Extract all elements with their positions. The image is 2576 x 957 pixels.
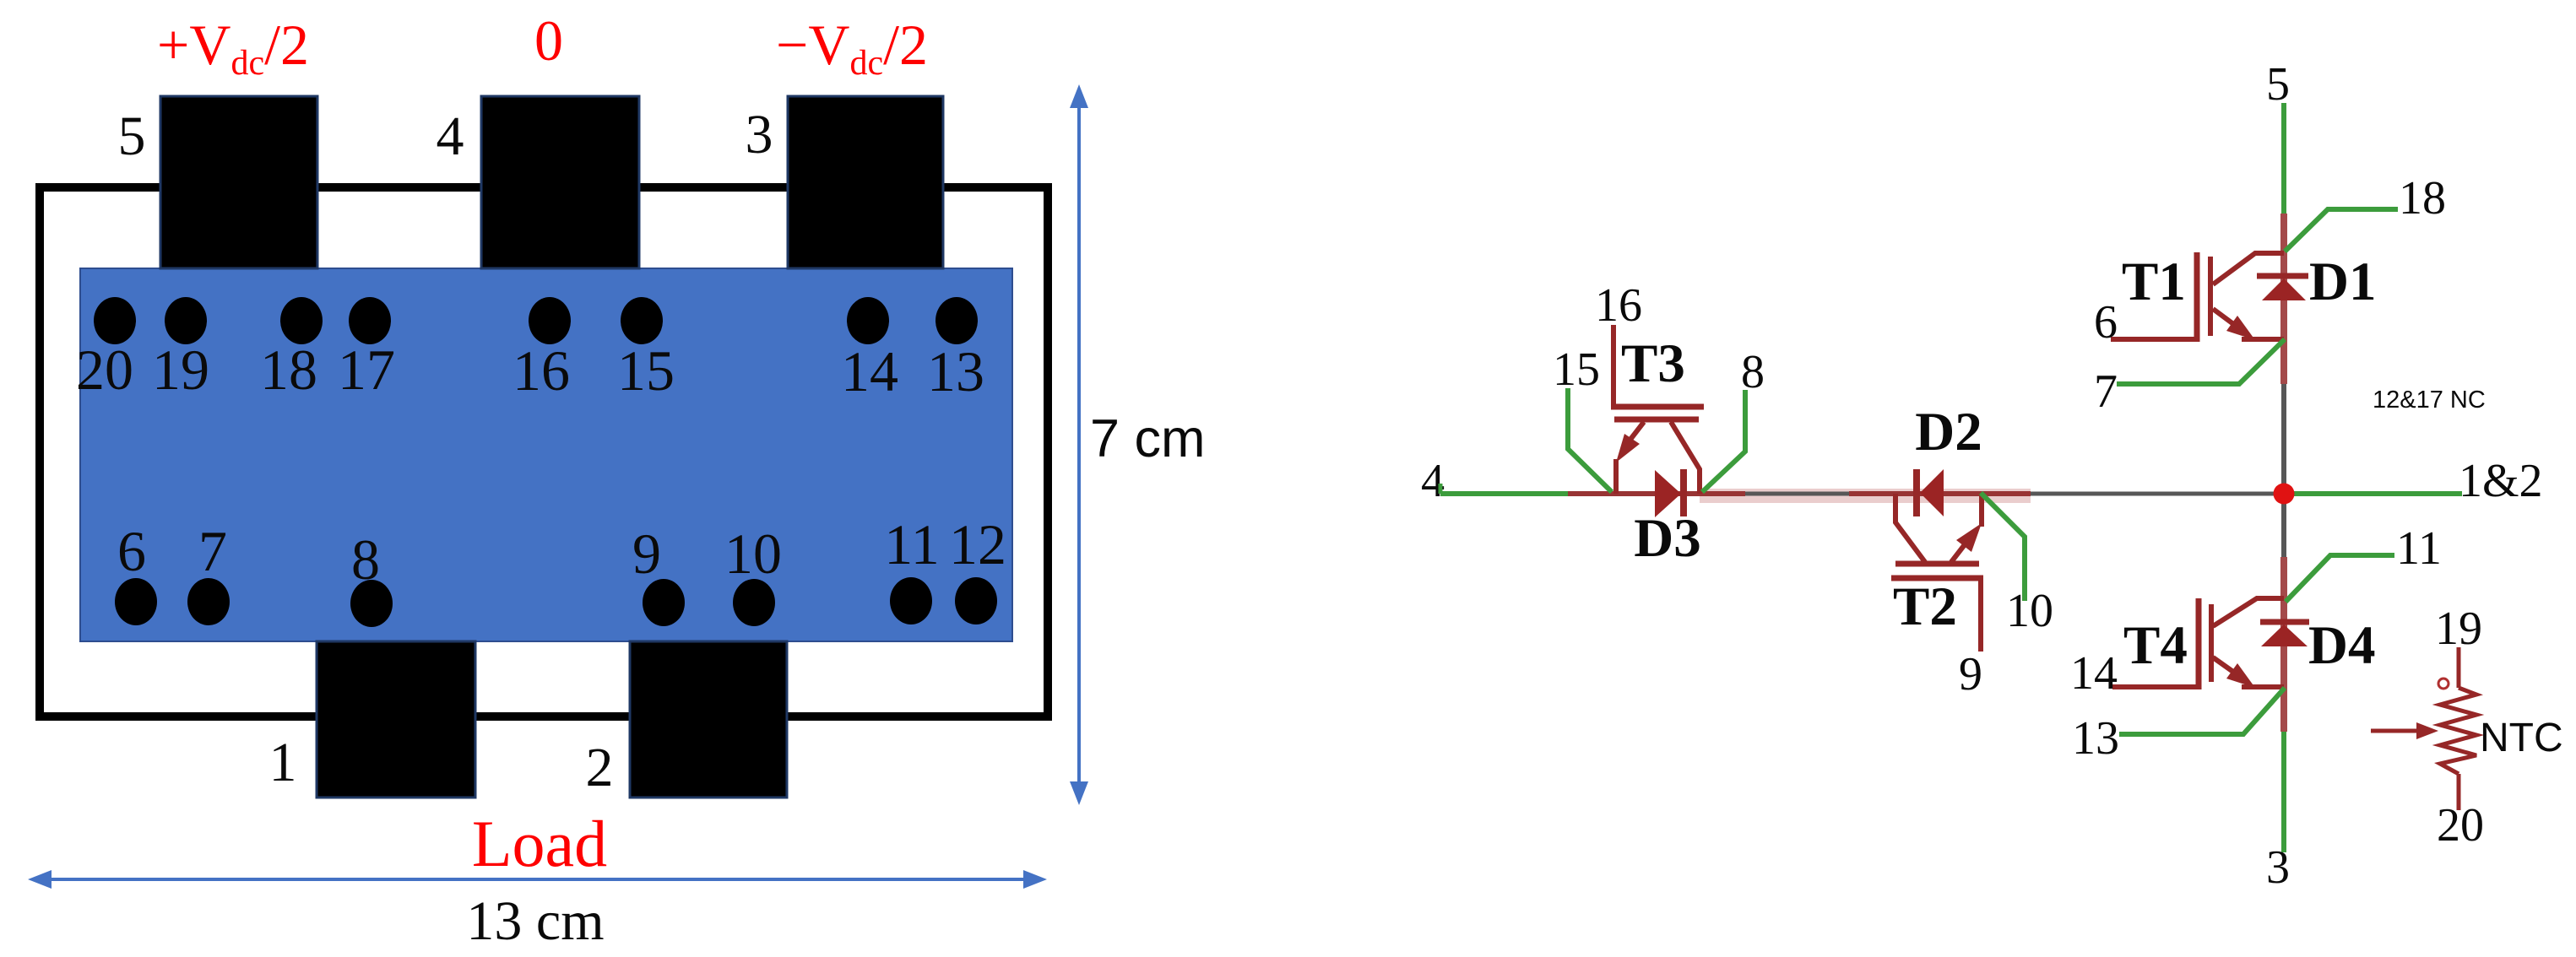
svg-text:3: 3 xyxy=(2266,841,2290,894)
pin 7 xyxy=(187,519,230,625)
wire maroon D2 to T2 junction xyxy=(1942,491,2031,496)
svg-text:7: 7 xyxy=(2094,365,2118,418)
svg-text:4: 4 xyxy=(437,105,464,167)
svg-text:20: 20 xyxy=(2437,799,2484,852)
pin 10 xyxy=(724,522,782,626)
svg-text:17: 17 xyxy=(338,338,395,402)
svg-text:7 cm: 7 cm xyxy=(1090,409,1206,468)
module case outline xyxy=(40,187,1048,716)
svg-text:13: 13 xyxy=(927,339,984,403)
wire gray to node xyxy=(2031,492,2280,496)
wire node to 1&2 green xyxy=(2286,491,2462,496)
diode D4 xyxy=(2260,622,2309,646)
wire pin18 green xyxy=(2285,209,2398,251)
transistor T1 (IGBT) xyxy=(2111,252,2284,342)
svg-text:12: 12 xyxy=(949,512,1006,576)
terminal 5 (+Vdc/2) xyxy=(160,96,317,268)
svg-text:10: 10 xyxy=(2006,585,2053,637)
svg-text:T3: T3 xyxy=(1621,333,1685,394)
svg-text:5: 5 xyxy=(2266,58,2290,111)
svg-text:18: 18 xyxy=(2399,172,2446,224)
wire pin4 green xyxy=(1440,484,1568,494)
wire pin8 green xyxy=(1702,390,1745,492)
svg-text:D1: D1 xyxy=(2309,251,2376,312)
svg-text:−Vdc/2: −Vdc/2 xyxy=(776,13,928,83)
svg-text:4: 4 xyxy=(1421,455,1445,507)
pin 14 xyxy=(841,297,898,403)
svg-text:5: 5 xyxy=(118,105,146,167)
svg-text:D3: D3 xyxy=(1634,508,1700,569)
pin 20 xyxy=(76,297,136,402)
wire maroon to D2 xyxy=(1849,491,1942,496)
wire pin15 green xyxy=(1568,388,1612,492)
NTC arrow xyxy=(2371,722,2438,739)
svg-text:T2: T2 xyxy=(1893,576,1957,637)
svg-text:1&2: 1&2 xyxy=(2459,455,2543,507)
wire pin11 green xyxy=(2286,555,2394,602)
svg-text:Load: Load xyxy=(472,807,607,880)
svg-text:15: 15 xyxy=(1553,343,1600,396)
pin 19 xyxy=(152,297,209,402)
diode D3 xyxy=(1655,469,1684,517)
terminal 1 (Load) xyxy=(317,641,475,797)
svg-text:D2: D2 xyxy=(1915,402,1982,462)
net highlight band on output bus xyxy=(1700,489,2031,503)
svg-text:19: 19 xyxy=(152,338,209,402)
svg-text:7: 7 xyxy=(198,519,227,583)
svg-text:12&17 NC: 12&17 NC xyxy=(2373,387,2486,414)
svg-text:1: 1 xyxy=(269,732,297,793)
svg-text:2: 2 xyxy=(586,737,614,798)
wire pin10 green xyxy=(1981,493,2025,601)
transistor T3 (IGBT rotated) xyxy=(1611,325,1704,494)
svg-text:11: 11 xyxy=(2396,522,2442,575)
svg-text:9: 9 xyxy=(632,522,661,586)
svg-text:D4: D4 xyxy=(2308,615,2375,676)
wire pin5 green top xyxy=(2281,103,2286,214)
pin 12 xyxy=(949,512,1006,624)
diode D1 xyxy=(2257,276,2308,300)
pin 17 xyxy=(338,297,395,402)
pin 15 xyxy=(617,297,675,403)
pin 6 xyxy=(115,519,157,625)
svg-text:13 cm: 13 cm xyxy=(466,890,604,952)
node junction dot xyxy=(2274,484,2295,505)
pin 11 xyxy=(884,512,939,624)
svg-text:6: 6 xyxy=(2094,296,2118,349)
svg-text:14: 14 xyxy=(841,339,898,403)
pin 8 xyxy=(350,527,393,627)
wire gray rail to node xyxy=(2281,384,2286,557)
horizontal dimension arrow 13cm xyxy=(28,870,1047,889)
vertical dimension arrow 7cm xyxy=(1070,84,1088,805)
svg-text:6: 6 xyxy=(117,519,146,583)
wire maroon rail T4 xyxy=(2280,557,2287,732)
svg-text:T1: T1 xyxy=(2122,251,2186,312)
svg-text:0: 0 xyxy=(534,8,563,73)
svg-text:8: 8 xyxy=(351,527,380,592)
svg-text:9: 9 xyxy=(1959,648,1982,700)
svg-text:11: 11 xyxy=(884,512,939,576)
wire pin13 green xyxy=(2119,688,2285,734)
wire maroon collector rail T1 xyxy=(2280,214,2287,384)
wire gray mid segment xyxy=(1745,492,1849,496)
wire pin7 green xyxy=(2117,339,2285,384)
svg-text:14: 14 xyxy=(2070,647,2118,700)
svg-text:19: 19 xyxy=(2435,603,2482,655)
svg-text:15: 15 xyxy=(617,338,675,403)
diode D2 xyxy=(1917,469,1944,516)
pin 9 xyxy=(632,522,685,626)
pin 18 xyxy=(260,297,323,402)
svg-text:T4: T4 xyxy=(2123,615,2188,676)
svg-text:10: 10 xyxy=(724,522,782,586)
svg-text:13: 13 xyxy=(2072,712,2119,765)
wire maroon to T3 xyxy=(1568,491,1745,496)
svg-text:+Vdc/2: +Vdc/2 xyxy=(157,13,309,83)
svg-text:NTC: NTC xyxy=(2480,716,2563,760)
transistor T4 (IGBT) xyxy=(2112,598,2284,689)
terminal 3 (-Vdc/2) xyxy=(788,96,943,268)
svg-text:20: 20 xyxy=(76,338,133,402)
svg-text:18: 18 xyxy=(260,338,317,402)
module body PCB xyxy=(80,268,1012,641)
pin 16 xyxy=(512,297,571,403)
terminal 2 (Load) xyxy=(630,641,787,797)
svg-text:16: 16 xyxy=(1595,279,1642,332)
svg-text:3: 3 xyxy=(746,104,773,165)
svg-text:16: 16 xyxy=(512,338,570,403)
terminal 4 (0) xyxy=(481,96,639,268)
thermistor NTC xyxy=(2438,647,2476,810)
wire pin3 green bottom xyxy=(2281,732,2286,852)
pin 13 xyxy=(927,297,984,403)
transistor T2 (IGBT rotated) xyxy=(1891,494,1983,652)
